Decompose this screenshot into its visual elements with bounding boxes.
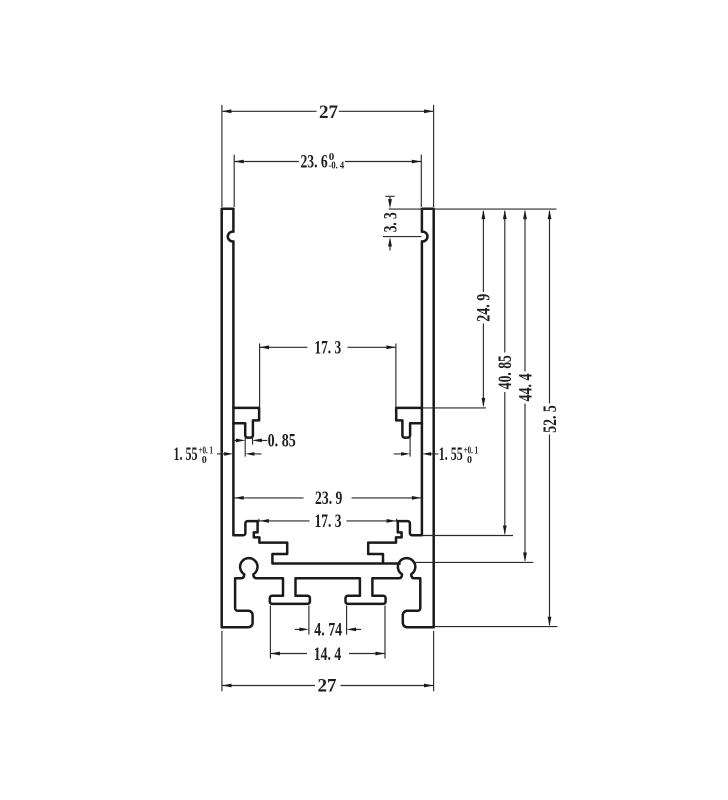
profile inner cavity right: wall with retaining bead, PCB ledge, clip hook, stepped floor — [368, 208, 427, 564]
dimension "23.6 0/-0.4": extension lines — [234, 155, 421, 207]
foot extension lines for 14.4 — [270, 606, 385, 659]
dimension "40.85": arrowheads — [503, 210, 507, 535]
top edge datum extension line to right-side dimensions — [389, 208, 557, 210]
dimension "4.74" feet gap: arrow lines — [295, 628, 362, 630]
dimension "3.3": arrowheads — [388, 199, 392, 246]
clip hook extension stubs — [245, 438, 410, 457]
dimension "44.4": dimension line — [524, 211, 526, 561]
dimension "40.85": dimension line — [504, 211, 506, 534]
dimension "27" top: arrowheads — [222, 109, 434, 113]
dimension "3.3": arrow stems — [389, 196, 391, 250]
svg-text:17. 3: 17. 3 — [314, 337, 341, 358]
dimension "1.55" right: arrowheads — [401, 452, 431, 456]
dimension "24.9": arrowheads — [482, 210, 486, 408]
dimension "23.9": arrowheads — [234, 496, 421, 500]
svg-text:52. 5: 52. 5 — [540, 405, 561, 433]
dimension "1.55 +0.1/0" left slot: arrow lines — [217, 453, 262, 455]
dimension "23.9" inner width: dimension line — [234, 497, 421, 499]
dimension "52.5": arrowheads — [548, 210, 552, 627]
svg-text:23. 9: 23. 9 — [315, 488, 342, 509]
dimension "0.85" hook peg width: arrow lines — [234, 439, 268, 441]
svg-text:14. 4: 14. 4 — [314, 644, 342, 665]
dimension "27" bottom: arrowheads — [222, 684, 434, 688]
dimension "4.74": arrowheads — [299, 628, 356, 632]
inner wall faces across ledge joints — [233, 407, 422, 424]
dimension "17.3" lower step width: dimension line — [259, 520, 396, 522]
svg-text:44. 4: 44. 4 — [515, 373, 536, 401]
svg-text:1. 55: 1. 55 — [439, 444, 463, 465]
dimension "27" top: dimension line — [222, 110, 434, 112]
dimension "52.5": dimension line — [549, 211, 551, 625]
svg-text:40. 85: 40. 85 — [495, 355, 516, 389]
svg-text:17. 3: 17. 3 — [315, 511, 342, 532]
svg-text:0: 0 — [202, 455, 207, 466]
dimension "14.4": arrowheads — [270, 652, 385, 656]
dimension "17.3" lower step width: extension stubs — [259, 519, 397, 522]
bottom face datum extension line — [435, 626, 558, 628]
dimension "3.3" wall bead depth: upper tick and reference line — [383, 196, 422, 236]
dimension "17.3" upper pocket: arrowheads — [260, 345, 396, 349]
dimension "24.9": dimension line — [482, 211, 484, 406]
PCB ledge datum extension line — [423, 407, 487, 409]
cavity floor datum extension line — [414, 561, 533, 563]
inner wall bottom datum extension line — [423, 535, 514, 537]
dimension "1.55" left: arrowheads — [224, 452, 254, 456]
dimension "17.3" upper pocket: dimension line — [260, 346, 396, 348]
dimension "14.4" feet span: dimension line — [270, 653, 385, 655]
dimension "23.6 0/-0.4": arrowheads — [234, 160, 421, 164]
dimension "23.6 0/-0.4": dimension line — [234, 161, 421, 163]
svg-text:24. 9: 24. 9 — [473, 294, 494, 322]
dimension "44.4": arrowheads — [523, 210, 527, 562]
svg-text:-0. 4: -0. 4 — [329, 160, 345, 171]
svg-text:0. 85: 0. 85 — [268, 431, 296, 452]
dimension "17.3" upper pocket: extension lines — [260, 344, 396, 408]
svg-text:27: 27 — [318, 676, 338, 697]
profile outer boundary: side walls, bottom face, screw-boss pods, track feet — [222, 209, 434, 627]
svg-text:4. 74: 4. 74 — [314, 620, 342, 641]
dimension "27" bottom: dimension line — [222, 685, 434, 687]
dimension "0.85": arrowheads — [236, 439, 262, 443]
foot gap extension lines for 4.74 — [309, 606, 347, 635]
svg-text:27: 27 — [319, 102, 339, 123]
svg-text:3. 3: 3. 3 — [380, 212, 401, 232]
dimension "17.3" lower: arrowheads — [259, 519, 396, 523]
profile inner cavity left: wall with retaining bead, PCB ledge, clip hook, stepped floor — [228, 208, 401, 564]
dimension "27" bottom: extension lines — [222, 631, 434, 691]
dimension "27" top: extension lines — [222, 105, 434, 207]
dimension "1.55 +0.1/0" right slot: arrow lines — [394, 453, 439, 455]
svg-text:0: 0 — [467, 455, 472, 466]
svg-text:1. 55: 1. 55 — [174, 444, 198, 465]
svg-text:23. 6: 23. 6 — [301, 152, 328, 173]
